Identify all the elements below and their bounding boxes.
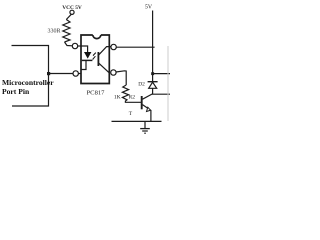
svg-text:1K: 1K [114,95,121,101]
svg-text:D2: D2 [138,81,145,87]
svg-text:VCC 5V: VCC 5V [62,5,82,11]
svg-text:PC817: PC817 [87,90,106,97]
svg-text:R2: R2 [129,94,136,100]
svg-text:Microcontroller: Microcontroller [2,78,54,87]
svg-text:5V: 5V [145,5,153,11]
svg-text:Port Pin: Port Pin [2,87,30,96]
svg-text:T: T [129,111,133,117]
svg-text:330R: 330R [47,28,60,34]
